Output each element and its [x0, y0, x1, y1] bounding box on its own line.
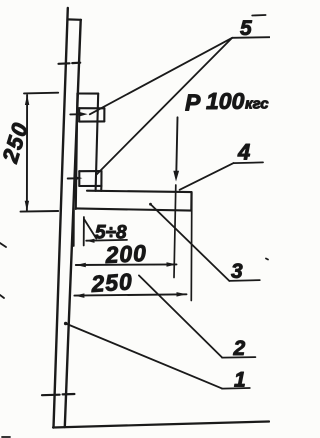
shelf plate (item 4): [76, 191, 192, 211]
svg-text:3: 3: [231, 260, 243, 283]
svg-text:100: 100: [206, 88, 245, 114]
leader 2: [139, 275, 256, 357]
bolt clamp lower (item 5): [79, 171, 101, 191]
bolt clamp upper (item 5): [79, 108, 104, 121]
force P arrow: [173, 117, 179, 277]
scan specks at edges: [0, 243, 268, 437]
bracket plate (item 2): [76, 94, 98, 210]
leader 4: [180, 162, 263, 189]
post break mark lower: [42, 394, 74, 395]
svg-text:250: 250: [0, 119, 33, 167]
dimension 250 vertical: arrowheads: [25, 95, 30, 212]
dimension 250 vertical: extension lines: [21, 93, 59, 212]
svg-text:5: 5: [240, 17, 252, 40]
svg-text:кгс: кгс: [245, 96, 269, 113]
wall post (item 1): [54, 8, 82, 428]
bolt pointer arrow upper: [70, 112, 87, 116]
svg-text:P: P: [185, 90, 201, 116]
dimension 250 horizontal: [74, 192, 191, 300]
svg-text:4: 4: [237, 140, 250, 165]
leader 1: [64, 322, 250, 389]
svg-text:200: 200: [104, 240, 148, 268]
post break mark upper: [59, 63, 81, 64]
leader 3: [149, 203, 260, 281]
leader 5 (two arms to bolt clamps): [90, 15, 270, 174]
svg-text:2: 2: [233, 337, 246, 360]
dimension 200 horizontal: [76, 262, 177, 267]
bolt pointer arrow lower: [68, 176, 83, 180]
dimension 5÷8: [74, 210, 127, 247]
svg-text:250: 250: [90, 268, 134, 297]
svg-text:1: 1: [234, 369, 246, 392]
ground line: [53, 422, 269, 428]
